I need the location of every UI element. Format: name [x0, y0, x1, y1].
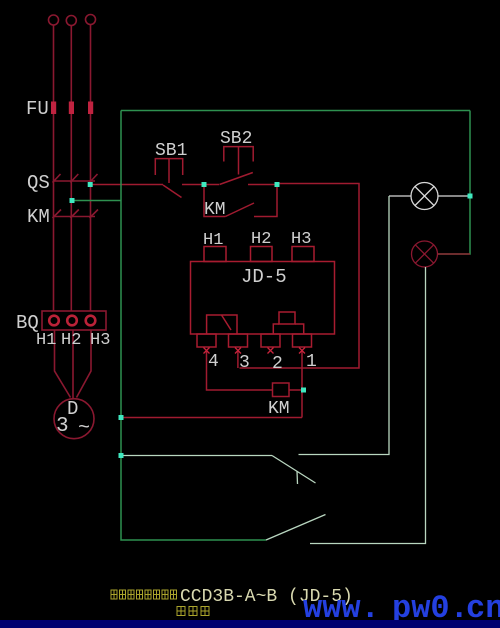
- wire green tap from phase2: [72, 200, 121, 202]
- svg-text:KM: KM: [27, 206, 50, 228]
- wire lamp HL leg: [299, 196, 390, 455]
- switch1 tick: [296, 471, 299, 484]
- wire KM aux branch right: [254, 185, 277, 217]
- x mark pin1: [299, 348, 305, 354]
- node QS tap: [88, 182, 93, 187]
- wire pin4 to KM coil: [207, 351, 273, 390]
- wire node B to right loop: [240, 184, 360, 369]
- wire KM return: [121, 417, 302, 419]
- wire switch1 left: [121, 455, 272, 457]
- svg-text:KM: KM: [268, 399, 290, 419]
- pin X marks: [204, 348, 306, 354]
- svg-text:2: 2: [272, 354, 283, 374]
- internal contact N symbol: [207, 315, 237, 334]
- wire SB1 to node A: [182, 184, 204, 186]
- wire phase3: [90, 25, 92, 312]
- node return y418: [119, 415, 124, 420]
- switch QS blade3: [90, 174, 98, 183]
- wire green left rail: [121, 111, 266, 541]
- internal coil box: [279, 312, 295, 324]
- pin 1 box: [293, 334, 312, 347]
- label chinese title 电动机综合保护器: [111, 590, 177, 599]
- wire node A to SB2: [204, 184, 219, 186]
- switch QS blade1: [53, 174, 61, 183]
- fuse FU1: [51, 102, 56, 115]
- svg-text:4: 4: [208, 352, 219, 372]
- x mark pin2: [268, 348, 274, 354]
- BQ coil1: [49, 316, 59, 326]
- wire lamp HR leg: [310, 267, 426, 544]
- terminal H1 box: [204, 247, 226, 262]
- node lamp HL: [468, 194, 473, 199]
- terminal L1: [49, 15, 59, 25]
- node KM coil out: [301, 388, 306, 393]
- bottom bar: [0, 620, 500, 628]
- svg-text:~: ~: [78, 417, 90, 440]
- svg-text:H2: H2: [251, 230, 271, 249]
- internal wire to pin1: [295, 324, 304, 334]
- BQ coil3: [86, 316, 96, 326]
- svg-text:JD-5: JD-5: [241, 266, 287, 288]
- svg-text:H1: H1: [36, 331, 56, 350]
- contactor KM blade3: [90, 210, 99, 219]
- node switch1: [119, 453, 124, 458]
- wire SB2 to node B: [248, 184, 277, 186]
- x mark pin3: [235, 348, 241, 354]
- relay JD-5 box: [191, 262, 335, 335]
- BQ coil2: [67, 316, 77, 326]
- button SB1 blade: [163, 185, 182, 198]
- wire BQ to motor left: [55, 330, 71, 398]
- button SB2 actuator: [224, 147, 253, 162]
- wire pin1 down through node C: [301, 351, 303, 418]
- terminal H3 box: [292, 247, 314, 262]
- svg-text:H3: H3: [90, 331, 110, 350]
- fuse FU2: [69, 102, 74, 115]
- motor M circle: [54, 399, 94, 439]
- svg-text:FU: FU: [26, 98, 49, 120]
- node A: [202, 182, 207, 187]
- node green tap: [70, 198, 75, 203]
- transformer BQ box: [42, 311, 106, 330]
- wire QS tap to SB1: [91, 184, 164, 186]
- wire phase1: [53, 25, 55, 311]
- contactor KM blade1: [53, 210, 62, 219]
- contactor KM linkage: [54, 216, 96, 218]
- svg-text:H3: H3: [291, 230, 311, 249]
- svg-text:1: 1: [306, 352, 317, 372]
- label chinese sub 接线图: [177, 607, 209, 616]
- x mark pin4: [204, 348, 210, 354]
- switch QS blade2: [70, 174, 78, 183]
- svg-text:QS: QS: [27, 172, 50, 194]
- wire BQ to motor right: [77, 330, 92, 398]
- fuse FU3: [88, 102, 93, 115]
- coil KM box: [273, 383, 290, 397]
- button SB2 blade: [220, 173, 253, 185]
- svg-text:KM: KM: [204, 200, 226, 220]
- svg-text:H2: H2: [61, 331, 81, 350]
- pin 4 box: [197, 334, 216, 347]
- internal wire to pin2: [273, 324, 279, 334]
- svg-text:SB2: SB2: [220, 129, 252, 149]
- pin 3 box: [229, 334, 248, 347]
- svg-text:D: D: [67, 398, 78, 420]
- svg-text:3: 3: [239, 353, 250, 373]
- terminal L2: [66, 16, 76, 26]
- wire phase2: [70, 26, 72, 312]
- switch QS linkage: [54, 180, 96, 182]
- wire BQ to motor mid: [72, 330, 74, 399]
- svg-text:H1: H1: [203, 231, 223, 250]
- button SB1 actuator: [155, 159, 182, 175]
- contactor KM blade2: [70, 210, 79, 219]
- wire KM coil to node C: [289, 389, 304, 391]
- wire green right rail: [438, 111, 470, 255]
- terminal L3: [86, 15, 96, 25]
- wire green top: [121, 110, 470, 112]
- svg-text:SB1: SB1: [155, 141, 187, 161]
- wire pin3 down: [237, 351, 239, 368]
- lamp HR red: [412, 241, 471, 267]
- switch1 blade: [272, 456, 316, 484]
- lamp HL white: [389, 183, 470, 210]
- node B: [275, 182, 280, 187]
- svg-text:3: 3: [56, 415, 69, 438]
- wire KM aux branch left: [204, 185, 225, 217]
- switch2 blade: [266, 515, 326, 541]
- contact KM aux blade: [225, 203, 254, 217]
- pin 2 box: [261, 334, 280, 347]
- terminal H2 box: [251, 247, 273, 262]
